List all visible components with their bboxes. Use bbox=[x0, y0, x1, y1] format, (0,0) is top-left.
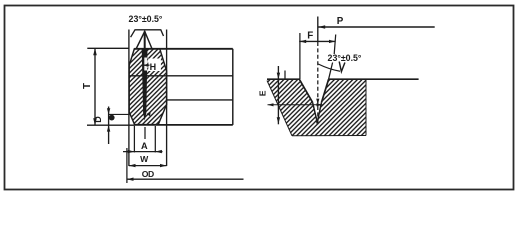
block bottom edge bbox=[292, 135, 366, 137]
centerline bottom arrow bbox=[316, 99, 319, 105]
dimension T extension top bbox=[87, 47, 128, 49]
surface corner stub bbox=[284, 71, 286, 80]
angle arc bbox=[318, 64, 340, 71]
tangent point dot bbox=[109, 115, 115, 121]
extension line left W bbox=[128, 30, 130, 167]
groove slot left wall bbox=[313, 102, 318, 123]
dimension T extension bottom long line bbox=[87, 124, 135, 126]
extension line A left bbox=[133, 126, 135, 152]
groove wall construction triangle bbox=[136, 31, 152, 48]
groove centerline upper bbox=[144, 31, 146, 48]
extension line F left bbox=[299, 33, 301, 79]
svg-text:A: A bbox=[141, 141, 148, 151]
centerline stub below bbox=[144, 127, 146, 139]
part right edge bbox=[232, 49, 234, 125]
dimension D line bbox=[108, 107, 110, 145]
surface line right of groove bbox=[328, 78, 418, 80]
svg-text:23°±0.5°: 23°±0.5° bbox=[328, 53, 362, 63]
svg-text:23°±0.5°: 23°±0.5° bbox=[129, 14, 163, 24]
dimension E line bbox=[277, 66, 279, 124]
extension line A right bbox=[154, 126, 156, 152]
svg-text:W: W bbox=[140, 154, 149, 164]
dimension P line bbox=[318, 26, 435, 28]
sheave section hatched body bbox=[129, 49, 166, 125]
groove left wall bbox=[299, 79, 312, 102]
svg-text:F: F bbox=[307, 30, 313, 41]
svg-text:D: D bbox=[93, 116, 103, 123]
dimension F line bbox=[299, 40, 335, 42]
svg-text:H: H bbox=[150, 62, 157, 72]
groove centerline bbox=[317, 17, 319, 43]
groove lower edge line bbox=[167, 99, 233, 101]
H label white window bbox=[148, 59, 161, 72]
part bottom edge bbox=[135, 124, 233, 126]
dimension T line bbox=[94, 48, 96, 125]
slot bottom arrow bbox=[147, 111, 151, 116]
groove bottom reference line bbox=[268, 104, 323, 106]
svg-text:P: P bbox=[337, 16, 344, 27]
extension line OD left bbox=[126, 148, 128, 183]
slot light notch bbox=[144, 58, 147, 71]
dimension H arrow bbox=[144, 64, 150, 66]
border frame bbox=[5, 6, 514, 190]
surface line left of groove bbox=[267, 78, 300, 80]
dimension D tangent line bbox=[108, 113, 129, 115]
block left broken edge bbox=[267, 81, 292, 136]
groove slot right wall bbox=[317, 102, 321, 123]
svg-text:T: T bbox=[82, 83, 93, 89]
block hatched body bbox=[267, 80, 366, 136]
angle bracket dimension line bbox=[131, 30, 164, 37]
extension line right W bbox=[166, 30, 168, 167]
part centerline horizontal bbox=[129, 75, 233, 77]
dimension OD line bbox=[127, 178, 244, 180]
dimension A line bbox=[123, 151, 163, 153]
groove slot dark bbox=[142, 49, 148, 121]
part top edge bbox=[134, 48, 233, 50]
groove right wall bbox=[322, 79, 329, 102]
block right edge bbox=[365, 80, 367, 136]
svg-text:E: E bbox=[257, 90, 267, 96]
groove right wall extension bbox=[329, 63, 333, 80]
dimension W line bbox=[129, 165, 167, 167]
svg-text:OD: OD bbox=[142, 169, 154, 179]
